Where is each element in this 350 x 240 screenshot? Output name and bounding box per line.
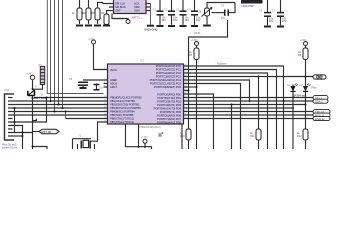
capacitor C7 bbox=[272, 0, 287, 27]
wire IC1 right row 1 bbox=[188, 66, 284, 149]
power port AVCC bbox=[88, 38, 104, 70]
crystal Y1 bbox=[73, 135, 95, 150]
capacitor C5 bbox=[221, 3, 235, 21]
resistor R8 pullup B bbox=[298, 48, 308, 85]
svg-text:SDN: SDN bbox=[134, 9, 140, 13]
svg-text:16V: 16V bbox=[282, 20, 287, 23]
power port +5V pullup A bbox=[191, 39, 199, 48]
svg-text:R12: R12 bbox=[297, 135, 302, 138]
wire R6 wiper to C5 bbox=[212, 12, 225, 14]
power port +5V pullup B bbox=[300, 39, 308, 48]
wire IC1 right row 4 reset bbox=[188, 76, 314, 78]
wire IC1 right row 15 bbox=[188, 114, 314, 116]
pin stubs U2 right bbox=[146, 4, 151, 11]
wire IC1 right row 9 bbox=[188, 94, 214, 149]
wire CN3 pin vertical x14.5 bbox=[14, 108, 16, 133]
capacitor C9 bbox=[94, 84, 104, 91]
capacitor C3 bbox=[176, 0, 189, 26]
svg-text:MRT1→: MRT1→ bbox=[132, 16, 143, 20]
svg-text:R10: R10 bbox=[180, 135, 185, 138]
svg-text:16V: 16V bbox=[162, 19, 167, 22]
svg-text:Volume: Volume bbox=[217, 62, 227, 66]
wire CN3 pin 132.5 row bbox=[13, 132, 33, 134]
wire IC1 right row 10 bbox=[188, 97, 314, 99]
wire bus bends bbox=[54, 111, 56, 113]
off-page connector oval P6 bbox=[313, 117, 330, 121]
svg-text:PORTB6(AIN2) PD8: PORTB6(AIN2) PD8 bbox=[157, 120, 181, 124]
power port bottom bbox=[141, 136, 148, 147]
power port reset +5V bbox=[26, 73, 35, 90]
resistor R10 bottom bbox=[180, 129, 191, 149]
svg-text:GND 12: GND 12 bbox=[315, 117, 325, 121]
resistor R5 bbox=[99, 11, 110, 26]
svg-text:PORTC6(RESET) PC6: PORTC6(RESET) PC6 bbox=[154, 85, 182, 89]
svg-text:CN3: CN3 bbox=[4, 89, 10, 92]
wire IC1 right row 2 bbox=[188, 70, 277, 150]
resistor R2 bbox=[72, 0, 87, 26]
resistor R12 bottom bbox=[297, 129, 308, 149]
resistor R7 pullup A bbox=[189, 48, 199, 149]
svg-text:22p: 22p bbox=[99, 87, 104, 90]
off-page connector oval P3 bbox=[313, 99, 328, 103]
svg-text:16V: 16V bbox=[269, 20, 274, 23]
wire bus line 1 bbox=[51, 0, 104, 101]
resistor network RN1 bbox=[33, 64, 45, 89]
capacitor C4 bbox=[188, 0, 201, 26]
svg-text:ULN→: ULN→ bbox=[194, 31, 203, 35]
IC1 right pin labels bbox=[150, 64, 182, 124]
wire IC1 right row 12 bbox=[188, 104, 306, 106]
net label arrow A1 bbox=[33, 129, 60, 134]
wire IC1 right row 8 bbox=[188, 90, 189, 92]
svg-text:16V: 16V bbox=[196, 19, 201, 22]
capacitor C8 on AREF bbox=[69, 78, 104, 88]
svg-text:SDA 2: SDA 2 bbox=[315, 100, 323, 104]
svg-text:16V: 16V bbox=[173, 19, 178, 22]
wire CN3 lower pin 122 up-route bbox=[13, 98, 47, 123]
power port +5V under U2 bbox=[112, 14, 130, 24]
wire bus line 2 bbox=[54, 0, 56, 112]
IC1 left pin stubs bbox=[104, 70, 108, 123]
wire IC1 bottom right pin down bbox=[181, 124, 183, 149]
pin stubs U2 left bbox=[109, 4, 114, 11]
capacitor C1 bbox=[153, 0, 166, 26]
wire IC1 right row 3 bbox=[188, 73, 268, 149]
svg-text:+LNG: +LNG bbox=[88, 38, 95, 41]
svg-text:BAT54 sw: BAT54 sw bbox=[293, 94, 306, 98]
connector CN3 bbox=[4, 89, 14, 140]
wire bottom-left to crystal gnd bbox=[33, 147, 48, 150]
main MCU IC1 bbox=[108, 60, 184, 125]
resistor R4 bbox=[90, 3, 109, 26]
inductor L1 (cut off at top) bbox=[241, 0, 263, 8]
pin numbers IC1 right bbox=[184, 65, 187, 120]
svg-text:schem-01 rev: schem-01 rev bbox=[2, 146, 18, 149]
resistor R11 bottom bbox=[250, 129, 261, 149]
wire CN3 pin 125.5 to x22.5 down bbox=[13, 126, 23, 150]
trimmer R6 top right bbox=[199, 3, 236, 26]
pin numbers IC1 left bbox=[104, 68, 107, 123]
off-page connector oval P1 bbox=[313, 75, 326, 79]
svg-text:PB7(XTAL2/TOSC2): PB7(XTAL2/TOSC2) bbox=[110, 120, 134, 124]
ground net U2 bbox=[144, 4, 157, 32]
wire vertical x258.5 bbox=[258, 77, 260, 130]
junction bus taps bbox=[50, 100, 52, 102]
svg-text:ADC7: ADC7 bbox=[110, 85, 118, 89]
capacitor C6 bbox=[259, 0, 274, 27]
svg-text:+LNG: +LNG bbox=[141, 136, 148, 139]
wire CN3 pin 136 row bbox=[13, 135, 23, 137]
wire IC1 right row 16 bbox=[188, 118, 314, 120]
wire bus line 4 bbox=[62, 0, 64, 108]
wire bus line 3 bbox=[59, 0, 104, 105]
svg-text:AVCC: AVCC bbox=[110, 68, 117, 72]
svg-text:LM1117MP: LM1117MP bbox=[242, 5, 255, 8]
IC1 left pin labels bbox=[110, 68, 142, 124]
IC1 right pin stubs bbox=[184, 66, 188, 119]
wire IC1 right row 13 bbox=[188, 107, 294, 109]
logo mark under IC1 bbox=[158, 132, 164, 138]
off-page connector oval P2 bbox=[313, 96, 328, 100]
wire XTAL1 from IC1 bbox=[90, 122, 103, 141]
wire pullup B lower bbox=[305, 85, 307, 129]
wire IC1 right row 14 bbox=[188, 111, 314, 113]
svg-text:10n: 10n bbox=[221, 17, 226, 20]
resistor R3 bbox=[81, 0, 96, 26]
diode D1 bbox=[287, 84, 298, 150]
pushbutton SW1 bbox=[28, 90, 47, 132]
off-page connector oval P4 bbox=[313, 110, 330, 114]
svg-text:GNT: GNT bbox=[115, 9, 121, 13]
wire bus line 0 bbox=[47, 0, 103, 94]
svg-text:IC1: IC1 bbox=[140, 60, 145, 63]
off-page connector oval P5 bbox=[313, 113, 330, 117]
wire IC1 right row 6 bbox=[188, 84, 241, 150]
svg-text:16V: 16V bbox=[185, 19, 190, 22]
svg-text:Tr: Tr bbox=[35, 86, 37, 89]
svg-text:P6x: P6x bbox=[312, 86, 318, 90]
wire vertical x231.5 bbox=[231, 105, 233, 150]
svg-text:ATMEGA168-20AU: ATMEGA168-20AU bbox=[139, 126, 161, 129]
svg-text:RESET SW1: RESET SW1 bbox=[31, 96, 47, 100]
wire rows connector to IC1 bbox=[34, 97, 104, 99]
wire IC1 right row 11 bbox=[188, 100, 314, 102]
svg-text:GND+GND: GND+GND bbox=[144, 28, 157, 32]
wire C5 down to reset line bbox=[189, 20, 228, 129]
capacitor C2 bbox=[165, 0, 178, 26]
wire IC1 right row 5 bbox=[188, 80, 250, 101]
svg-text:R11: R11 bbox=[250, 135, 255, 138]
wire IC1 GND pins down bbox=[126, 124, 152, 149]
svg-text:RST 06: RST 06 bbox=[42, 130, 52, 134]
junction pullup A to pin row bbox=[196, 86, 198, 88]
diode D2 bbox=[300, 84, 311, 92]
op IC U2 top connector block bbox=[109, 0, 151, 14]
wire SW down bbox=[32, 132, 34, 150]
wire IC1 right row 7 bbox=[188, 86, 197, 88]
